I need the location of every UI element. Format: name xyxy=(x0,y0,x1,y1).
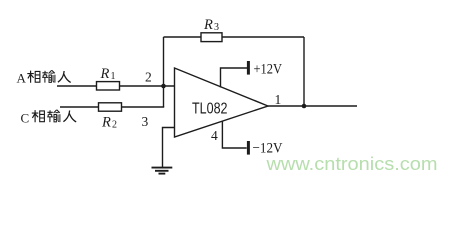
svg-text:3: 3 xyxy=(214,22,219,33)
label C phase input xyxy=(21,110,77,126)
svg-text:www.cntronics.com: www.cntronics.com xyxy=(265,153,437,174)
op-amp U1 TL082 xyxy=(175,68,269,137)
svg-text:R: R xyxy=(100,66,110,82)
wire R1 to summing node xyxy=(119,85,175,87)
svg-text:C: C xyxy=(21,111,30,126)
resistor R2 xyxy=(99,103,122,111)
pin 3 wire to ground xyxy=(163,128,175,168)
resistor R1 xyxy=(97,82,120,90)
junction node at output xyxy=(302,104,307,109)
pin 4 wire to V- xyxy=(222,122,246,149)
wire R2 to summing vertical xyxy=(121,106,164,108)
svg-text:+12V: +12V xyxy=(254,61,283,77)
svg-text:R: R xyxy=(101,115,111,131)
label A phase input xyxy=(17,70,71,85)
resistor R3 xyxy=(201,33,222,42)
svg-text:4: 4 xyxy=(211,128,218,143)
label R3 xyxy=(203,17,219,33)
V+ supply bar xyxy=(247,61,250,75)
svg-text:2: 2 xyxy=(112,120,117,131)
svg-text:1: 1 xyxy=(111,71,116,82)
svg-text:TL082: TL082 xyxy=(192,101,228,118)
svg-text:A: A xyxy=(17,71,27,86)
feedback top wire xyxy=(164,36,305,38)
wire C input xyxy=(60,106,99,108)
svg-text:2: 2 xyxy=(145,70,152,85)
V+ supply wire xyxy=(221,68,248,88)
ground xyxy=(152,168,173,174)
svg-text:R: R xyxy=(203,17,213,33)
svg-text:3: 3 xyxy=(142,114,149,129)
feedback right vertical wire xyxy=(303,37,305,106)
junction node at summing point xyxy=(161,84,166,89)
summing node vertical wire (feedback + C input) xyxy=(163,37,165,107)
wire A input xyxy=(57,85,97,87)
V- supply bar xyxy=(247,141,250,155)
svg-text:1: 1 xyxy=(275,92,282,107)
output wire xyxy=(268,105,357,107)
label R2 xyxy=(101,115,117,131)
label R1 xyxy=(100,66,116,82)
